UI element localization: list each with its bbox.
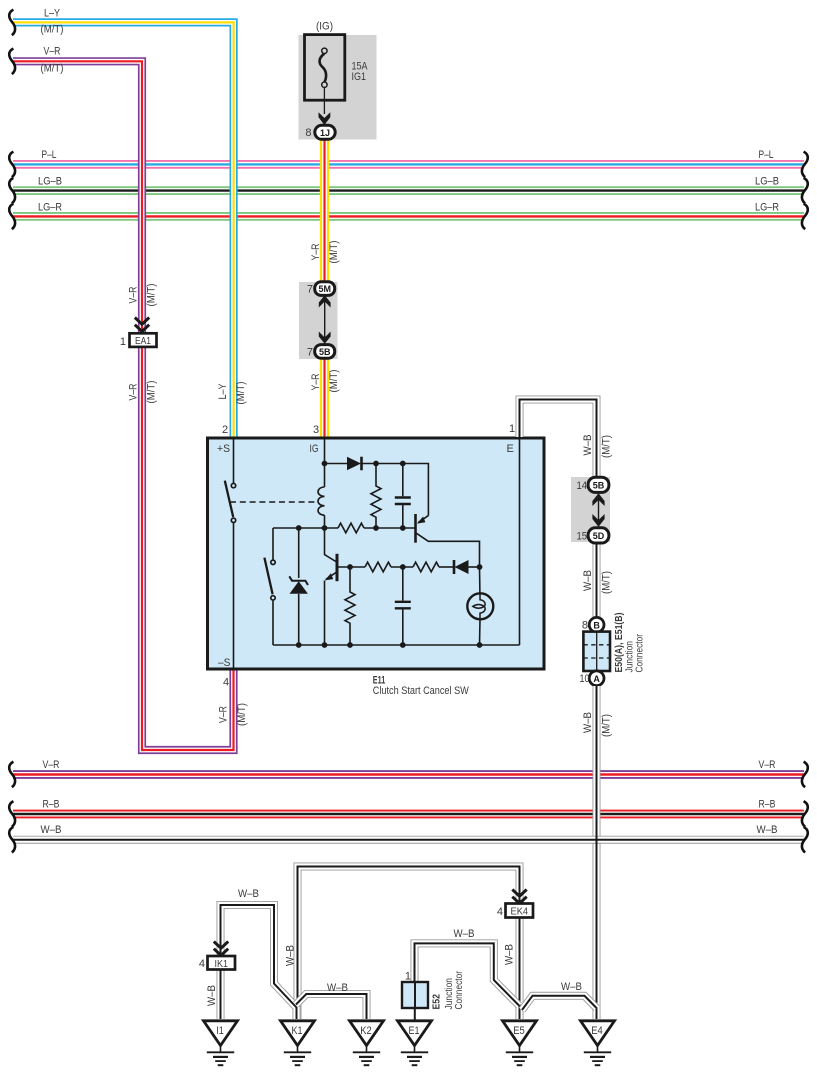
connector 5M/5B gray panel: [299, 282, 338, 359]
bus V-R bottom: [13, 770, 804, 779]
svg-text:Y–R: Y–R: [310, 243, 322, 260]
svg-text:1: 1: [509, 423, 515, 435]
junction C1 bottom Q1 base: [400, 525, 406, 531]
svg-text:14: 14: [577, 480, 588, 492]
junction D3 top: [296, 525, 302, 531]
svg-text:L–Y: L–Y: [44, 7, 61, 19]
capacitor C1: [395, 496, 411, 498]
svg-text:IG1: IG1: [352, 71, 367, 83]
svg-text:2: 2: [222, 424, 228, 436]
wire W-B crossing W-B bus: [596, 833, 598, 847]
wire W-B E5 to E4: [522, 996, 597, 1010]
junction Q2 emitter bottom: [322, 642, 328, 648]
svg-text:Clutch Start Cancel SW: Clutch Start Cancel SW: [373, 685, 470, 697]
wire Y-R 1J to 5M: [320, 139, 329, 283]
svg-text:+S: +S: [217, 443, 230, 455]
svg-text:(M/T): (M/T): [601, 714, 613, 737]
connector 1J pin 8: [305, 125, 335, 139]
wire Y-R 5B to E11 pin 3: [320, 357, 329, 438]
svg-text:V–R: V–R: [128, 383, 140, 400]
capacitor C2 leads: [402, 567, 404, 601]
svg-text:8: 8: [582, 620, 588, 632]
junction Q2 base R5 top: [347, 564, 353, 570]
ground E1: [398, 1021, 432, 1065]
wire E52 to ground E1: [414, 1008, 416, 1020]
junction D2 to lamp top: [477, 564, 483, 570]
coil L1: [318, 487, 325, 515]
svg-text:4: 4: [199, 958, 205, 970]
squiggle V-R: [9, 49, 15, 75]
svg-text:V–R: V–R: [44, 46, 61, 58]
svg-text:(M/T): (M/T): [146, 381, 158, 404]
svg-text:V–R: V–R: [43, 759, 60, 771]
junction D3 bottom: [296, 642, 302, 648]
svg-text:K2: K2: [360, 1025, 372, 1037]
svg-text:(IG): (IG): [316, 21, 333, 33]
svg-text:Connector: Connector: [453, 971, 465, 1010]
squiggle LG-B left: [9, 178, 15, 204]
svg-text:E4: E4: [591, 1025, 603, 1037]
svg-text:V–R: V–R: [759, 759, 776, 771]
wire base row with resistors R3 R4: [339, 566, 366, 568]
svg-text:7: 7: [307, 346, 313, 358]
svg-text:I1: I1: [216, 1025, 224, 1037]
junction connector E50(A) E51(B): [580, 613, 646, 686]
svg-text:(M/T): (M/T): [601, 435, 613, 458]
svg-text:W–B: W–B: [454, 928, 475, 940]
svg-text:IG: IG: [310, 443, 319, 455]
bus R-B: [13, 810, 804, 819]
svg-text:W–B: W–B: [285, 945, 297, 966]
wire W-B I1 through IK1 to K1: [221, 905, 297, 1019]
svg-text:P–L: P–L: [759, 149, 774, 161]
connector EA1 pin 1: [120, 318, 157, 349]
squiggle L-Y: [9, 10, 15, 36]
wire W-B 5D to node B: [593, 542, 601, 618]
bus LG-B: [13, 186, 804, 195]
wire W-B node A to ground E4: [593, 686, 601, 1019]
svg-text:1J: 1J: [320, 128, 330, 138]
ground E5: [503, 1021, 537, 1065]
zener diode D3: [290, 581, 308, 594]
bottom bus squiggles: [9, 762, 15, 788]
svg-text:(M/T): (M/T): [328, 370, 340, 393]
svg-text:B: B: [593, 620, 600, 630]
diode D2: [455, 560, 469, 574]
fuse 15A IG1: [305, 35, 345, 125]
svg-text:A: A: [593, 674, 600, 684]
svg-text:10: 10: [580, 673, 590, 685]
svg-text:W–B: W–B: [41, 824, 62, 836]
transistor Q2 emitter wire: [324, 581, 326, 646]
svg-text:W–B: W–B: [582, 570, 594, 591]
svg-text:(M/T): (M/T): [41, 24, 64, 36]
switch SW1 blade: [225, 481, 233, 517]
junction C2 bottom: [400, 642, 406, 648]
junction R4 to C2 top: [400, 564, 406, 570]
wire left branch to SW2: [272, 528, 274, 560]
junction connector E52 pin 1: [402, 971, 465, 1010]
svg-text:K1: K1: [292, 1025, 303, 1037]
svg-text:(M/T): (M/T): [146, 284, 158, 307]
svg-text:IK1: IK1: [215, 958, 229, 970]
junction lamp bottom: [477, 642, 483, 648]
wire W-B K1 to K2: [296, 994, 367, 1019]
svg-text:5B: 5B: [593, 480, 605, 490]
svg-text:15: 15: [577, 531, 588, 543]
transistor Q1 (PNP): [414, 514, 417, 543]
squiggle LG-R right: [802, 204, 808, 230]
transistor Q2 (NPN): [336, 554, 339, 581]
squiggle P-L left: [9, 152, 15, 178]
junction R5 bottom: [347, 642, 353, 648]
squiggle LG-B right: [802, 178, 808, 204]
svg-text:LG–B: LG–B: [38, 176, 62, 188]
wire IG pin to node: [324, 440, 326, 488]
svg-text:W–B: W–B: [582, 712, 594, 733]
svg-text:E5: E5: [513, 1025, 525, 1037]
svg-text:EK4: EK4: [511, 906, 529, 918]
lamp leads: [479, 567, 481, 593]
svg-text:3: 3: [313, 424, 319, 436]
svg-text:E1: E1: [409, 1025, 420, 1037]
dashed link SW1 to coil L1: [230, 501, 316, 503]
bus LG-R: [13, 212, 804, 221]
svg-text:(M/T): (M/T): [41, 62, 64, 74]
svg-text:1: 1: [405, 971, 411, 983]
resistor R5: [345, 567, 355, 645]
fuse block gray panel: [299, 35, 377, 140]
svg-text:Y–R: Y–R: [310, 373, 322, 390]
svg-text:1: 1: [120, 336, 126, 348]
svg-text:Connector: Connector: [634, 634, 646, 673]
wire bottom row: [273, 644, 520, 646]
svg-text:E: E: [507, 443, 514, 455]
capacitor C2: [395, 601, 411, 603]
svg-text:(M/T): (M/T): [235, 382, 247, 405]
svg-text:P–L: P–L: [42, 149, 57, 161]
svg-text:–S: –S: [218, 657, 231, 669]
svg-text:W–B: W–B: [757, 824, 778, 836]
svg-text:4: 4: [223, 677, 229, 689]
bus P-L: [13, 160, 804, 169]
junction IG node: [322, 461, 328, 467]
junction D1 to R1: [373, 461, 379, 467]
capacitor C1 leads: [402, 464, 404, 497]
bus W-B: [13, 836, 804, 844]
wire node IG to D1 and Q1 emitter: [325, 463, 348, 465]
svg-text:(M/T): (M/T): [328, 241, 340, 264]
ground K2: [350, 1021, 384, 1065]
lamp bulb: [467, 593, 493, 619]
transistor Q2 collector wire: [325, 528, 337, 562]
connector 5M/5B assembly: [307, 282, 335, 359]
svg-text:R–B: R–B: [43, 799, 60, 811]
connector IK1 pin 4: [199, 942, 235, 971]
svg-text:5B: 5B: [319, 347, 331, 357]
transistor Q1 collector wire: [417, 533, 480, 567]
svg-text:LG–B: LG–B: [755, 176, 779, 188]
wire +S pin to SW1: [233, 440, 235, 484]
svg-text:W–B: W–B: [504, 944, 516, 965]
svg-text:5D: 5D: [593, 531, 605, 541]
svg-text:8: 8: [305, 127, 311, 139]
wire W-B E11 pin 1 to 5B: [520, 400, 597, 479]
switch SW2 blade: [264, 558, 272, 595]
junction coil L1 bottom: [322, 525, 328, 531]
wire mid row with resistor R2: [273, 527, 338, 529]
diode D1: [347, 457, 361, 471]
svg-text:R–B: R–B: [759, 799, 776, 811]
svg-text:W–B: W–B: [561, 981, 582, 993]
connector EK4 pin 4: [497, 890, 533, 919]
svg-text:LG–R: LG–R: [755, 202, 779, 214]
svg-text:LG–R: LG–R: [38, 202, 62, 214]
svg-text:L–Y: L–Y: [217, 383, 229, 400]
connector 5B/5D gray panel: [571, 477, 610, 542]
svg-text:4: 4: [497, 906, 503, 918]
ground E4: [581, 1021, 615, 1065]
ground I1: [204, 1021, 238, 1065]
svg-text:W–B: W–B: [327, 982, 348, 994]
wire W-B E52 to E5: [415, 943, 520, 1005]
svg-text:(M/T): (M/T): [601, 571, 613, 594]
resistor R1: [371, 464, 381, 529]
svg-text:(M/T): (M/T): [236, 703, 248, 726]
wire E pin vertical: [519, 440, 521, 646]
wire L-Y to E11 pin 2: [13, 22, 234, 438]
squiggle P-L right: [802, 152, 808, 178]
wire SW1 to -S pin: [233, 523, 235, 668]
svg-text:5M: 5M: [318, 284, 331, 294]
svg-text:W–B: W–B: [238, 888, 259, 900]
ground K1: [281, 1021, 315, 1065]
svg-text:EA1: EA1: [135, 335, 151, 347]
wire W-B K1 to EK4 to E5: [298, 867, 520, 1020]
svg-text:V–R: V–R: [218, 706, 230, 723]
svg-text:7: 7: [307, 284, 313, 296]
svg-text:W–B: W–B: [582, 435, 594, 456]
svg-text:V–R: V–R: [128, 286, 140, 303]
wire zener D3 branch: [298, 528, 300, 578]
svg-text:W–B: W–B: [206, 985, 218, 1006]
switch contacts SW2: [271, 560, 275, 564]
svg-text:E52: E52: [431, 994, 443, 1010]
connector 5B/5D assembly: [577, 477, 609, 543]
wire V-R through EA1 to E11 pin 4: [13, 61, 234, 750]
junction R1 to C1 top: [400, 461, 406, 467]
squiggle LG-R left: [9, 204, 15, 230]
switch contacts SW1: [231, 483, 235, 487]
junction R1 bottom: [373, 525, 379, 531]
